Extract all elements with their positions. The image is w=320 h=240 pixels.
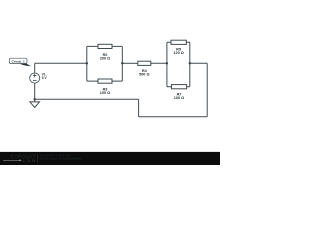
resistor R5: [171, 40, 186, 44]
ground: [30, 99, 40, 107]
voltage source V1: [30, 73, 40, 83]
wire top feed horizontal: [35, 62, 87, 64]
label R7 100 Ohm: [174, 93, 184, 101]
wire V1 top lead: [34, 63, 36, 73]
wire V1 bottom lead: [34, 83, 36, 99]
wire bottom rail step: [138, 99, 140, 117]
wire R3 leads: [87, 80, 123, 82]
resistor R4: [138, 61, 151, 65]
footer text: [40, 153, 82, 160]
wire bottom rail upper: [35, 98, 139, 100]
wire bottom rail lower: [139, 116, 208, 118]
wire R7 leads: [167, 86, 190, 88]
wire left pair left vertical: [86, 46, 88, 81]
footer bar: [0, 152, 220, 165]
label R2 200 Ohm: [100, 53, 110, 61]
wire output to right edge: [190, 62, 207, 64]
wire R2 leads: [87, 45, 123, 47]
node tag Circuit_1: [9, 58, 31, 66]
resistor R3: [98, 79, 112, 83]
wire R5 leads: [167, 41, 190, 43]
junction dot node B: [121, 62, 123, 64]
wire node to R4: [122, 62, 138, 64]
wire right pair right vertical: [189, 42, 191, 86]
label R5 120 Ohm: [173, 48, 183, 56]
svg-text:100 Ω: 100 Ω: [100, 91, 110, 95]
CircuitLab logo: [3, 154, 38, 163]
label V1 5 V: [42, 72, 48, 80]
svg-text:120 Ω: 120 Ω: [173, 51, 183, 55]
svg-text:http://circuitlab.com/c/226u3b: http://circuitlab.com/c/226u3b36b6b: [40, 156, 82, 160]
junction dot node C: [166, 62, 168, 64]
svg-text:LAB: LAB: [23, 158, 36, 163]
junction dot node D: [189, 62, 191, 64]
wire R4 to right pair: [151, 62, 167, 64]
junction dot ground node: [34, 98, 36, 100]
label R3 100 Ohm: [100, 88, 110, 96]
wire left pair right vertical: [121, 46, 123, 81]
label R4 500 Ohm: [139, 69, 149, 77]
wire right pair left vertical: [166, 42, 168, 86]
resistor R7: [172, 85, 187, 89]
svg-text:100 Ω: 100 Ω: [174, 96, 184, 100]
resistor R2: [98, 44, 112, 48]
junction dot node A: [86, 62, 88, 64]
wire right edge vertical down: [206, 63, 208, 117]
svg-text:500 Ω: 500 Ω: [139, 72, 149, 76]
svg-text:Circuit_1: Circuit_1: [11, 59, 25, 63]
svg-text:200 Ω: 200 Ω: [100, 57, 110, 61]
